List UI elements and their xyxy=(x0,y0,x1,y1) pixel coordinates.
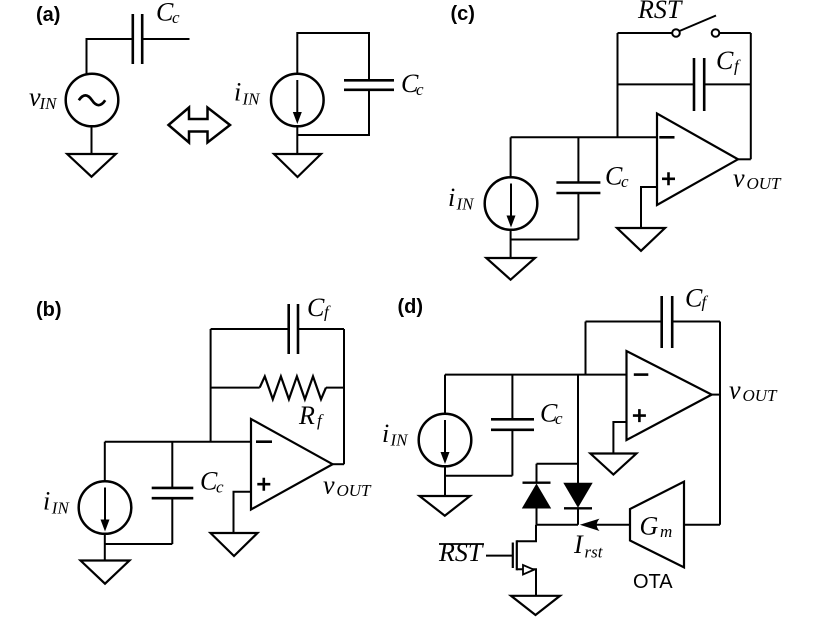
op-amp U1 (b) xyxy=(251,419,333,510)
svg-text:RST: RST xyxy=(637,0,683,24)
wire V1 top to Cc xyxy=(87,39,133,75)
wire left diode branch lower (d) xyxy=(536,508,538,525)
gate bar xyxy=(512,543,514,569)
ground (c input) xyxy=(486,230,535,280)
wire right vertical (c) xyxy=(750,33,752,159)
svg-text:(d): (d) xyxy=(398,296,424,318)
label Gm xyxy=(640,512,673,542)
svg-text:i: i xyxy=(382,419,389,448)
current source I1 (c) xyxy=(485,177,538,230)
svg-text:IN: IN xyxy=(39,94,59,113)
wire left diode branch upper (d) xyxy=(536,464,538,483)
resistor Rf xyxy=(211,376,344,399)
wire output (b) xyxy=(333,463,344,465)
label Rf xyxy=(298,401,324,430)
wire Cc top (c) xyxy=(577,137,579,182)
svg-text:f: f xyxy=(324,303,331,322)
svg-text:C: C xyxy=(307,293,325,322)
ground (a left) xyxy=(67,127,116,177)
svg-text:OUT: OUT xyxy=(747,174,783,193)
svg-text:(a): (a) xyxy=(36,4,60,26)
wire I1 top (b) xyxy=(104,442,106,482)
wire bottom (d) xyxy=(445,475,512,477)
voltage source V1 xyxy=(66,74,119,127)
label Cf (b) xyxy=(307,293,331,322)
label RST-bar xyxy=(438,538,484,567)
wire Gm input from vOUT (d) xyxy=(684,524,720,526)
label iIN (c) xyxy=(448,183,475,214)
label Cc (a left) xyxy=(156,0,180,27)
drain wire xyxy=(517,525,536,542)
svg-text:OTA: OTA xyxy=(633,571,673,593)
switch RST xyxy=(618,16,751,37)
wire Cc bottom (d) xyxy=(511,430,513,476)
svg-text:IN: IN xyxy=(242,90,262,109)
capacitor Cc (a right) xyxy=(344,80,394,90)
svg-text:v: v xyxy=(733,164,745,193)
svg-text:i: i xyxy=(43,487,50,516)
source wire xyxy=(517,569,536,596)
transistor M1 (NMOS) xyxy=(486,525,536,596)
svg-text:OUT: OUT xyxy=(743,386,779,405)
wire right diode branch lower (d) xyxy=(577,508,579,525)
label vOUT (d) xyxy=(729,376,778,406)
capacitor Cc (b) xyxy=(152,488,194,498)
wire Cf right (b) xyxy=(298,328,344,330)
label Cc (a right) xyxy=(401,69,424,99)
wire I1 top loop xyxy=(297,33,369,80)
diode D2 (right, pointing down) xyxy=(563,483,592,509)
wire left vertical (b) xyxy=(210,329,212,442)
label Cc (c) xyxy=(605,161,629,191)
svg-text:R: R xyxy=(298,401,315,430)
wire right vertical (b) xyxy=(343,329,345,464)
source arrow xyxy=(523,565,534,575)
wire output (c) xyxy=(738,158,751,160)
svg-text:c: c xyxy=(416,80,424,99)
ground (d transistor) xyxy=(511,596,560,615)
arrow Irst from Gm xyxy=(580,519,630,531)
svg-text:i: i xyxy=(234,78,241,107)
op-amp U1 (c) xyxy=(657,114,738,206)
capacitor Cc (a left) xyxy=(133,14,142,64)
wire noninverting to ground (c) xyxy=(641,187,657,228)
label Cc (d) xyxy=(540,399,563,428)
wire Cc right stub xyxy=(142,38,189,40)
svg-text:OUT: OUT xyxy=(337,481,373,500)
svg-text:(c): (c) xyxy=(451,3,475,25)
wire I1 top (d) xyxy=(444,375,446,414)
svg-text:f: f xyxy=(734,57,741,76)
wire Cf right (c) xyxy=(704,83,751,85)
capacitor Cf (d) xyxy=(662,296,673,348)
svg-text:G: G xyxy=(640,512,659,541)
current source I1 (d) xyxy=(419,414,472,467)
wire left vertical (c) xyxy=(617,33,619,137)
svg-text:v: v xyxy=(323,471,335,500)
svg-text:I: I xyxy=(573,530,584,559)
svg-text:(b): (b) xyxy=(36,299,62,321)
ground (d op-amp) xyxy=(590,454,636,475)
wire Cc bottom loop xyxy=(297,90,369,135)
capacitor Cc (d) xyxy=(491,419,534,430)
svg-text:m: m xyxy=(660,522,672,541)
wire inverting input (b) xyxy=(105,441,251,443)
label vOUT (b) xyxy=(323,471,372,501)
label Cf (c) xyxy=(716,46,741,76)
wire noninverting to ground (d) xyxy=(613,422,626,454)
wire Cf left (b) xyxy=(211,328,289,330)
ground (b op-amp) xyxy=(211,533,258,556)
wire diode branch vertical (d) xyxy=(577,375,579,483)
label vOUT (c) xyxy=(733,164,782,194)
wire Cf left (c) xyxy=(618,83,695,85)
svg-text:f: f xyxy=(317,411,324,430)
wire Cf right (d) xyxy=(672,321,720,323)
wire right vertical vOUT (d) xyxy=(719,322,721,525)
ground (c op-amp) xyxy=(617,228,665,251)
svg-text:C: C xyxy=(716,46,734,75)
svg-text:IN: IN xyxy=(456,195,476,214)
current source I1 xyxy=(271,74,324,127)
wire bottom (b) xyxy=(105,543,173,545)
wire bottom (c) xyxy=(511,239,579,241)
label Cf (d) xyxy=(685,283,709,312)
wire left feedback vertical (d) xyxy=(585,322,587,375)
svg-text:c: c xyxy=(216,477,224,496)
channel bar xyxy=(516,540,518,570)
equivalence double arrow xyxy=(169,108,231,143)
svg-text:C: C xyxy=(685,283,703,312)
wire Cc top (d) xyxy=(511,375,513,420)
label Cc (b) xyxy=(200,466,224,496)
svg-text:RST: RST xyxy=(438,538,484,567)
svg-text:v: v xyxy=(729,376,741,405)
wire I1 top (c) xyxy=(510,137,512,177)
svg-text:IN: IN xyxy=(390,431,410,450)
capacitor Cf (b) xyxy=(289,304,298,354)
gate wire xyxy=(486,555,513,557)
ground (a right) xyxy=(274,126,321,177)
wire output (d) xyxy=(712,394,720,396)
label iIN (d) xyxy=(382,419,409,450)
wire diode top bar (d) xyxy=(537,463,579,465)
capacitor Cf (c) xyxy=(694,58,704,111)
wire bottom node (d) xyxy=(537,524,579,526)
label vIN xyxy=(29,83,58,114)
wire Cf left (d) xyxy=(586,321,662,323)
wire Cc top (b) xyxy=(171,442,173,488)
svg-text:c: c xyxy=(172,8,180,27)
wire noninverting to ground (b) xyxy=(234,492,252,533)
label iIN (a right) xyxy=(234,78,261,109)
svg-text:IN: IN xyxy=(51,498,71,517)
wire inverting input (d) xyxy=(445,374,627,376)
current source I1 (b) xyxy=(79,481,132,534)
label Irst xyxy=(573,530,604,562)
svg-text:rst: rst xyxy=(585,543,604,562)
wire inverting input (c) xyxy=(511,136,657,138)
wire Cc bottom (c) xyxy=(577,193,579,240)
label iIN (b) xyxy=(43,487,70,518)
svg-text:c: c xyxy=(621,172,629,191)
svg-text:i: i xyxy=(448,183,455,212)
svg-text:c: c xyxy=(555,409,563,428)
diode D1 (left, pointing up) xyxy=(522,483,551,509)
capacitor Cc (c) xyxy=(556,183,600,194)
ground (d input) xyxy=(420,466,471,516)
ground (b input) xyxy=(81,534,130,584)
wire Cc bottom (b) xyxy=(171,498,173,544)
op-amp U1 (d) xyxy=(627,351,712,440)
OTA Gm xyxy=(630,482,684,568)
svg-text:f: f xyxy=(702,293,709,312)
